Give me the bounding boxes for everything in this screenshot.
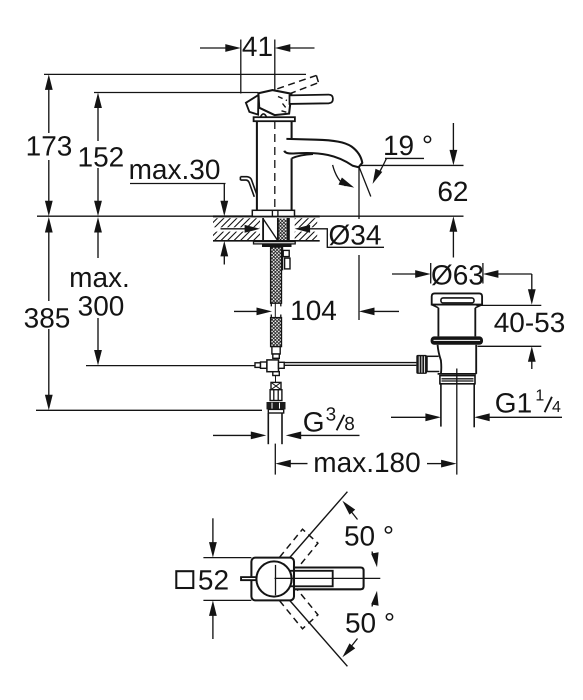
counter thickness lower arrowhead	[220, 241, 228, 257]
svg-text:G1: G1	[495, 388, 532, 419]
shank left wall	[262, 218, 264, 241]
faucet body left wall	[256, 121, 258, 210]
knurled knob	[416, 355, 427, 374]
dimension 41 left arrowhead	[225, 44, 241, 52]
max300 bottom reference line	[86, 365, 255, 367]
spout white fill	[284, 139, 362, 167]
svg-text:4: 4	[552, 399, 561, 416]
T-joint left cap	[255, 363, 261, 368]
dimension max300 upper arrowhead	[94, 217, 102, 233]
hose break centre line	[274, 303, 276, 317]
waste plug cap	[441, 298, 474, 303]
hex nut highlights	[272, 403, 280, 409]
dimension 62 upper arrowhead	[450, 150, 458, 166]
dimension 385 line upper	[48, 228, 50, 301]
dimension D63 left tail	[392, 273, 417, 275]
flange underside reference line	[476, 304, 541, 306]
pipe collar	[268, 409, 283, 413]
base plate inner marks	[272, 211, 278, 217]
seal bottom reference line	[478, 345, 542, 347]
max.30 leader vertical	[223, 184, 225, 203]
shank dark bar	[287, 218, 290, 241]
dimension 385 upper arrowhead	[45, 217, 53, 233]
pop-up rod hook at body rear	[240, 177, 257, 197]
dimension 40-53 lower tail	[531, 359, 533, 369]
dimension 385 line lower	[48, 329, 50, 398]
max.30 leader underline	[130, 183, 226, 185]
svg-text:8: 8	[344, 414, 355, 435]
slotted nut inner lines	[274, 390, 278, 400]
faucet body right wall upper	[291, 121, 293, 138]
centre line segment below T	[275, 376, 277, 383]
locknut under counter	[262, 244, 292, 247]
lower 50deg leader arrowhead	[342, 643, 355, 657]
spout outlet height reference line	[359, 164, 463, 166]
handle flap front tip	[246, 95, 259, 115]
faucet centre line dashed through body	[274, 95, 276, 210]
svg-text:Ø63: Ø63	[431, 260, 484, 291]
fraction slash 1/4	[545, 397, 552, 412]
dimension 173 line lower	[48, 160, 50, 203]
dimension 173 lower arrowhead	[45, 201, 53, 217]
hose connector diagonals	[271, 382, 281, 389]
lower 50deg leader to lever	[372, 597, 376, 607]
dimension 62 lower arrowhead	[450, 216, 458, 232]
spout underside fillet	[292, 154, 313, 158]
dimension 40-53 lower arrowhead	[528, 346, 536, 362]
dimension G38 left arrowhead	[251, 432, 266, 440]
counter hatch lower-right band	[295, 232, 318, 241]
T-joint block	[267, 360, 279, 372]
dimension max180 right tail	[427, 463, 442, 465]
waste body bottom edge	[438, 373, 477, 375]
dimension 152 line lower	[97, 168, 99, 203]
dimension G38 right arrowhead	[286, 432, 302, 440]
flexible hose upper section	[271, 247, 282, 303]
385 bottom reference line	[36, 409, 262, 411]
svg-text:3: 3	[326, 404, 337, 425]
stream swivel arc arrowhead	[339, 178, 355, 188]
top view centre line horizontal	[275, 577, 381, 579]
counter hatch upper-right band	[295, 218, 318, 227]
dimension 41 line left segment	[200, 47, 226, 49]
svg-text:Ø34: Ø34	[329, 220, 382, 251]
dimension max180 left arrowhead	[275, 460, 291, 468]
waste body left wall with port saddle	[438, 345, 442, 374]
dimension 152 line upper	[97, 102, 99, 141]
50deg ray lower	[288, 599, 347, 667]
svg-text:52: 52	[198, 565, 229, 596]
50deg ray upper	[288, 492, 347, 560]
svg-text:1: 1	[535, 387, 544, 404]
faucet centre extension line upper	[274, 40, 276, 93]
dimension max180 left tail	[290, 463, 308, 465]
dimension 52 upper arrowhead	[209, 542, 217, 558]
dimension 173 upper arrowhead	[45, 74, 53, 90]
svg-text:62: 62	[437, 176, 468, 207]
lever ghost dashed upper	[280, 529, 318, 571]
dimension 152 lower arrowhead	[94, 201, 102, 217]
dimension G114 left arrowhead	[425, 413, 441, 421]
water stream reference vertical upper	[358, 167, 360, 219]
washer under counter	[254, 242, 296, 244]
dimension 62 upper tail	[452, 123, 454, 151]
handle knob hidden edge dashes	[278, 97, 287, 113]
T-joint left collar	[261, 362, 267, 368]
svg-text:19 °: 19 °	[383, 130, 433, 161]
19 deg leader curve	[376, 158, 387, 178]
dimension 104 left arrowhead	[257, 308, 273, 316]
top view lever inner rect	[289, 571, 333, 587]
flange chamfer left	[432, 305, 439, 308]
waste neck left wall	[437, 308, 439, 337]
counter hatch lower-left band	[213, 232, 260, 241]
top view cartridge circle	[256, 561, 291, 596]
svg-text:41: 41	[242, 31, 273, 62]
tailpipe left wall	[440, 384, 442, 427]
svg-text:50 °: 50 °	[344, 520, 394, 551]
dimension D63 right arrowhead	[483, 270, 499, 278]
svg-text:385: 385	[24, 303, 71, 334]
dimension 40-53 upper arrowhead	[528, 289, 536, 305]
svg-text:173: 173	[26, 131, 73, 162]
supply pipe left wall	[267, 413, 269, 444]
dimension max300 line lower	[97, 318, 99, 353]
dimension 52 lower arrowhead	[209, 600, 217, 616]
T-joint right stub	[279, 362, 285, 368]
counter top edge thick segment	[213, 215, 320, 217]
dimension max300 lower arrowhead	[94, 350, 102, 366]
dimension D34 left tail	[221, 228, 247, 230]
hex nut dark	[267, 402, 286, 409]
spout outline	[284, 139, 362, 167]
dimension G114 right arrowhead	[474, 413, 490, 421]
19 deg leader arrowhead	[373, 169, 383, 184]
water stream reference vertical lower	[358, 255, 360, 320]
knurled knob ridges	[419, 356, 424, 372]
19 deg underline	[385, 157, 424, 159]
top view body square	[251, 558, 294, 601]
pop-up rod bracket stem	[281, 247, 283, 270]
dimension 40-53 upper line	[531, 274, 533, 291]
waste body right wall	[475, 345, 477, 374]
reference line top of handle y=74.4	[44, 73, 306, 75]
waste side port top edge	[427, 355, 439, 357]
counter hatch upper-left band	[213, 218, 260, 227]
waste side port bottom edge	[427, 371, 439, 373]
pop-up rod to waste upper line	[284, 362, 416, 364]
T-joint bottom stub	[273, 372, 280, 376]
shank mid wall	[277, 218, 279, 241]
lower 50deg leader to ray	[348, 639, 358, 651]
D63 right extension line	[482, 263, 484, 284]
svg-text:50 °: 50 °	[345, 607, 395, 638]
handle raised ghost dashed upper line	[277, 75, 316, 88]
pin white slot	[242, 578, 255, 580]
svg-text:max.: max.	[69, 262, 130, 293]
dimension 104 right tail	[374, 310, 399, 312]
dimension 385 lower arrowhead	[45, 395, 53, 411]
dimension D34 right arrowhead	[295, 225, 311, 233]
dimension 52 lower tail	[212, 615, 214, 640]
dimension 152 upper arrowhead	[94, 93, 102, 109]
D34 leader stepped line	[310, 229, 385, 248]
tailpipe right wall	[473, 384, 475, 428]
pop-up rod bracket upper block	[283, 250, 289, 256]
stream swivel arc	[333, 165, 346, 186]
handle raised ghost end cap dash	[316, 75, 318, 82]
dimension 173 line upper	[48, 84, 50, 133]
fraction slash 3/8	[337, 415, 345, 431]
body collar	[254, 117, 295, 121]
dimension 41 line right segment	[290, 47, 315, 49]
dimension 62 lower tail	[452, 230, 454, 258]
shank thread diagonal	[264, 220, 278, 241]
lower 50deg lever arrowhead	[371, 591, 379, 606]
pop-up rod to waste lower line	[284, 364, 416, 366]
faucet body right wall lower	[291, 158, 293, 210]
max.30 arrowhead onto counter top	[220, 201, 228, 217]
knob base arch	[260, 114, 266, 117]
hose adapter	[272, 347, 280, 354]
waste nut	[440, 376, 475, 384]
extension line handle tip x=240.8	[240, 40, 242, 94]
dimension G38 left tail	[213, 434, 252, 436]
hose adapter stub	[273, 354, 280, 358]
upper 50deg lever arrowhead	[371, 552, 379, 567]
D63 left extension line	[430, 263, 432, 284]
flexible hose lower section	[271, 318, 282, 347]
svg-text:152: 152	[78, 141, 125, 172]
top view centre line vertical	[275, 565, 277, 595]
dimension max180 right arrowhead	[441, 460, 457, 468]
svg-text:max.180: max.180	[313, 447, 420, 478]
counter top reference line	[37, 215, 464, 217]
faucet centre extension at max180	[274, 444, 276, 475]
hose break stubs	[271, 303, 281, 317]
waste side port left cap	[426, 356, 428, 371]
dimension 41 right arrowhead	[275, 44, 291, 52]
svg-text:104: 104	[290, 295, 337, 326]
lever ghost dashed lower	[280, 587, 318, 629]
hose connector knurled	[271, 382, 281, 389]
top view pop-up pin	[240, 576, 256, 581]
waste seal ring	[431, 336, 483, 344]
handle raised ghost dashed lower line	[278, 83, 318, 99]
handle knob body	[258, 90, 291, 115]
dimension D63 right tail to corner	[498, 273, 532, 275]
waste centre line lower	[456, 369, 458, 475]
flange chamfer right	[475, 305, 482, 308]
dimension G38 right tail underline	[301, 434, 360, 436]
upper 50deg leader to ray	[348, 508, 358, 520]
pop-up rod bracket lower hook	[285, 258, 290, 269]
svg-text:40-53: 40-53	[494, 307, 566, 338]
dimension D63 left arrowhead	[415, 270, 431, 278]
waste neck right wall	[474, 308, 476, 337]
waste flange	[432, 293, 482, 304]
upper 50deg leader arrowhead	[342, 501, 355, 515]
counter bottom edge	[213, 240, 320, 242]
dimension 104 right arrowhead	[359, 308, 375, 316]
dimension 52 upper tail	[212, 518, 214, 543]
square symbol	[176, 571, 193, 588]
dimension 104 left tail	[234, 310, 258, 312]
water stream 19 deg slanted line	[359, 168, 371, 197]
svg-text:max.30: max.30	[129, 154, 221, 185]
svg-text:G: G	[303, 407, 325, 438]
slotted nut	[270, 390, 282, 401]
shank hose crosshatch cell	[279, 219, 287, 241]
upper 50deg leader to lever	[372, 552, 376, 562]
top view lever outer	[294, 568, 364, 590]
dimension G114 right tail underline	[489, 416, 562, 418]
svg-text:300: 300	[78, 291, 125, 322]
waste nut inner lines	[442, 379, 474, 381]
dimension max300 line upper	[97, 228, 99, 258]
reference line top of body y=92.5	[94, 92, 258, 94]
counter thickness lower tail	[223, 252, 225, 265]
top view square extension bottom	[203, 599, 251, 601]
dimension G114 left tail	[391, 416, 427, 418]
dimension D34 left arrowhead	[245, 225, 261, 233]
supply pipe right wall	[281, 413, 283, 444]
waste seal midline	[434, 339, 481, 341]
base plate	[252, 210, 294, 216]
top view square extension top	[203, 557, 251, 559]
handle lever stick	[290, 95, 333, 104]
